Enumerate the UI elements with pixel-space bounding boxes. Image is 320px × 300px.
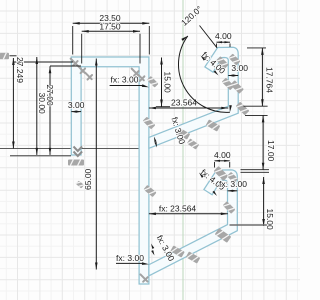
tiny marker near 65 text (75, 180, 84, 188)
svg-text:17.764: 17.764 (265, 67, 275, 93)
svg-text:15.00: 15.00 (163, 72, 173, 94)
perp markers top-mid corner (129, 66, 140, 77)
svg-text:4.00: 4.00 (214, 150, 231, 160)
badge left edge top (0, 53, 9, 60)
dim 17.00 (262, 115, 264, 169)
X axis segment (0, 148, 149, 150)
top hook strip (tab, right wall, upper diagonal) (149, 47, 238, 148)
dim 30.00 (36, 57, 38, 155)
dim 17.50 (82, 30, 140, 32)
svg-text:fx: 3.00: fx: 3.00 (116, 253, 144, 263)
badge below origin (68, 160, 84, 166)
svg-text:27.249: 27.249 (15, 57, 25, 83)
dim 65.00 (95, 59, 97, 270)
svg-text:65.00: 65.00 (83, 168, 93, 190)
dim 17.764 (261, 48, 263, 106)
svg-text:fx: 3.00: fx: 3.00 (111, 75, 139, 85)
svg-text:17.00: 17.00 (266, 140, 276, 162)
perp marker wall bottom (138, 272, 150, 284)
Y axis (green) (182, 0, 184, 300)
origin marker chevron (74, 147, 83, 157)
svg-text:15.00: 15.00 (265, 209, 275, 231)
dim 4.00 top tab (217, 41, 231, 43)
badge near axis end (187, 138, 199, 149)
badges top diagonal (176, 127, 191, 139)
dim 120.0 deg (178, 36, 229, 112)
dim 23.564 (149, 107, 228, 109)
svg-text:3.00: 3.00 (68, 100, 85, 110)
badge middle wall mid (143, 185, 156, 197)
extension line bottom of left wall (10, 155, 71, 157)
dim 15.00 top (161, 58, 163, 107)
badges bottom diagonal (170, 245, 185, 257)
dim 4.00 bottom tab (215, 160, 230, 162)
svg-text:3.00: 3.00 (231, 63, 248, 73)
bottom hook strip (tab, right wall, lower diagonal) (149, 170, 237, 276)
dim 27.00 (49, 66, 51, 155)
badge middle wall upper (143, 117, 156, 130)
dim fx: 23.564 (149, 213, 228, 215)
badges bottom tab (214, 166, 229, 181)
dim 15.00 bottom (263, 177, 265, 226)
badges top tab (216, 56, 229, 69)
svg-text:fx: 23.564: fx: 23.564 (159, 204, 197, 214)
svg-text:fx: 3.00: fx: 3.00 (219, 179, 247, 189)
dim 27.249 (12, 58, 14, 149)
svg-text:27.00: 27.00 (45, 85, 55, 107)
svg-text:4.00: 4.00 (215, 31, 232, 41)
svg-text:17.50: 17.50 (99, 22, 121, 32)
badge near fx3 label (147, 76, 159, 88)
main profile strip (left wall, top wall, middle wall) (71, 57, 149, 284)
perp markers top-left corner (68, 56, 79, 67)
dim 23.50 (73, 22, 150, 24)
badges top hook wall (230, 80, 244, 94)
